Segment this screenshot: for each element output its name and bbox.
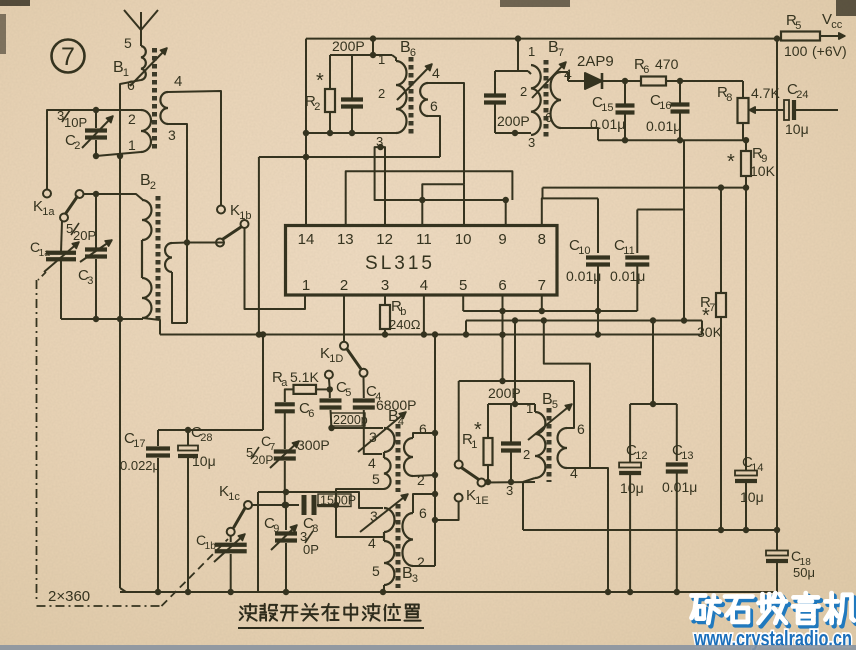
svg-text:200P: 200P [332,38,365,54]
svg-text:20P: 20P [252,453,273,467]
svg-text:1a: 1a [42,206,55,218]
svg-text:4: 4 [420,277,428,294]
wire right vertical x777 [776,39,778,530]
wire IC pin6 oscillator feed [459,295,574,384]
svg-text:0.01μ: 0.01μ [590,116,625,132]
wire B1 pin3 down to B2 [168,124,190,323]
caption band-switch position text [238,604,424,628]
svg-text:470: 470 [655,56,679,72]
capacitor C16 [646,81,690,140]
svg-text:11: 11 [416,231,432,248]
wire C5 to B4 pin3 [328,410,383,431]
transformer B6 tank bottom wire [306,130,396,136]
svg-text:240Ω: 240Ω [389,317,421,332]
svg-text:7: 7 [270,442,276,453]
terminal K1a fixed contact [43,190,51,198]
capacitor C17 [120,430,170,592]
capacitor C1b variable [196,532,247,562]
transformer B5 label [542,391,558,411]
transformer B4 secondary winding [404,421,427,488]
svg-text:4: 4 [432,65,440,81]
svg-text:1: 1 [302,277,310,294]
capacitor C24 output [770,81,838,137]
wire C1a bottom to ground rail [60,260,62,319]
transformer B6 secondary winding [420,65,440,116]
svg-text:2: 2 [417,554,425,570]
wire detector node [602,78,641,84]
wire B5 pin6 to IC pin6 line [567,381,574,428]
transformer B4 tuning arrow [358,412,406,452]
op-amp IC U1 SL315 [286,226,558,296]
capacitor C13 [662,404,697,592]
transformer B6 tuning arrow [397,64,432,100]
svg-text:0.01μ: 0.01μ [610,268,645,284]
svg-text:6: 6 [498,277,506,294]
wire ground rail bottom [120,589,777,595]
svg-text:7: 7 [538,277,546,294]
transformer B7 primary winding [520,44,541,150]
svg-text:10μ: 10μ [620,480,644,496]
svg-text:16: 16 [659,100,671,112]
wire AGC line y140 [598,137,749,143]
capacitor C5 [320,379,352,408]
svg-text:0.01μ: 0.01μ [566,268,601,284]
svg-text:12: 12 [635,450,647,462]
capacitor C2 value 3/10P [57,108,87,152]
wire C12 C13 bridge [630,403,677,405]
svg-text:1b: 1b [205,541,217,552]
svg-text:50μ: 50μ [793,565,815,580]
svg-text:1D: 1D [329,353,343,365]
wire K1c pivot to C1b [230,535,232,542]
transformer B6 primary winding [376,52,407,149]
svg-text:14: 14 [298,231,315,248]
svg-text:7: 7 [61,43,75,71]
svg-text:*: * [474,419,482,441]
capacitor C10 [566,198,610,311]
resistor R6 [634,56,679,86]
wire R6 to R8 [666,78,743,84]
svg-text:10μ: 10μ [785,121,809,137]
wire B6 pin4 to IC pins 10/11 [419,83,464,226]
transformer B2 primary winding [142,200,152,318]
figure number 7 circle [52,40,85,73]
wire C3 bottom to ground rail [93,259,99,322]
svg-text:12: 12 [376,231,393,248]
svg-text:6: 6 [430,98,438,114]
wire C11 top to AGC net [637,209,684,211]
wire AGC bypass vertical x684 [683,140,685,320]
wire C10 down to supply rail [595,308,601,338]
wire B3 pin2 to osc bus [413,565,435,567]
transformer B1 secondary winding (pins 2-1) [128,110,151,153]
wire K1d moving contact to C4 [363,377,365,398]
svg-text:2: 2 [417,472,425,488]
svg-text:a: a [281,377,288,389]
wire B4 pin6 to osc bus [413,430,438,438]
wire K1e rest terminal to osc bus [435,502,459,520]
wire B1 pin6 to pin1 junction [117,80,141,159]
wire K1b pivot to IC pin1 [245,228,306,309]
svg-text:1: 1 [378,52,385,67]
svg-text:6: 6 [419,421,427,437]
gang dash-dot line left [37,272,229,606]
wire Ra left to C6 [285,389,294,402]
switch K1c [219,483,252,536]
svg-text:1E: 1E [475,495,488,507]
svg-text:1c: 1c [228,491,240,503]
svg-text:24: 24 [796,89,808,101]
wire B1 pin4 to K1b terminal [168,91,221,205]
svg-text:2: 2 [314,101,320,113]
svg-text:5.1K: 5.1K [290,369,319,385]
resistor Ra [272,369,319,394]
svg-text:5: 5 [459,277,467,294]
svg-text:2: 2 [74,140,80,152]
svg-text:*: * [316,70,324,92]
svg-text:2: 2 [523,447,530,462]
transformer B1 tuning arrow [130,48,167,86]
capacitor C1a variable [44,242,79,272]
svg-text:3: 3 [381,277,389,294]
capacitor C7 trimmer [246,433,330,468]
svg-text:10: 10 [578,245,590,257]
wire 1500P line [252,489,299,508]
svg-text:3: 3 [412,573,418,585]
transformer B5 core [547,408,552,482]
transformer B3 primary winding [368,508,395,585]
svg-text:200P: 200P [488,385,521,401]
svg-text:13: 13 [681,450,693,462]
transformer B7 label [548,39,564,59]
svg-text:2200p: 2200p [333,413,368,427]
wire K1a pivot to C3 and B2 top [83,191,143,248]
transformer B2 coupling winding [165,243,172,272]
resistor R5 supply [781,12,847,59]
wire IF ground return y157 [256,154,440,338]
capacitor C3 trimmer [80,240,112,262]
svg-text:6: 6 [577,421,585,437]
capacitor C2 trimmer [82,116,113,148]
label 2x360 [48,588,90,605]
wire B1 pin2 to C2 top and K1a [47,107,141,189]
transformer B4 primary winding [368,428,395,489]
svg-text:1: 1 [526,401,533,416]
svg-text:6: 6 [545,110,552,125]
wire B5 pin4 to ground [567,468,608,592]
svg-text:10μ: 10μ [740,489,764,505]
transformer B6 tank top wire [330,54,392,56]
svg-text:6: 6 [308,408,314,420]
capacitor C28 [178,424,216,595]
wire left tank bottom rail [61,316,143,322]
transformer B3 label [402,565,418,585]
wire B1 pin1 to C2 bottom [93,110,141,159]
wire band line y492 [258,492,383,508]
svg-text:(+6V): (+6V) [812,43,847,59]
transformer B3 core [396,504,401,588]
capacitor C6 [275,400,315,420]
svg-text:1a: 1a [39,248,51,259]
svg-text:5: 5 [372,563,380,579]
wire decoupling top wire y430 [158,331,266,433]
wire osc bus vertical x435 [432,335,438,567]
wire oscillator supply loop y320 [466,317,702,334]
svg-text:0P: 0P [303,542,319,557]
resistor R2 [305,55,335,133]
capacitor C15 [590,81,635,140]
svg-text:0.01μ: 0.01μ [662,479,697,495]
transformer B5 primary winding [506,401,545,498]
transformer B6 label [400,39,416,59]
wire AGC line y187 [543,184,750,198]
wire C6 to C7 [284,413,286,449]
svg-text:17: 17 [133,438,145,450]
wire B2 coupling bottom [172,272,187,323]
svg-text:10: 10 [455,231,472,248]
wire band line left down [257,492,259,592]
wire Ra right to K1d contact and C5 [316,379,333,398]
svg-text:2: 2 [520,84,527,99]
wire rail corner to IC pin14 [303,39,309,226]
transformer B5 secondary winding [558,421,586,481]
svg-text:1: 1 [128,137,136,153]
capacitor 200P in B7 tank [484,71,530,133]
svg-text:3: 3 [528,135,535,150]
wire supply rail y334 [160,331,702,338]
wire IC pin2 to K1d [343,295,345,342]
capacitor C3 labels [66,221,96,287]
wire B2 coupling top to K1b contact [172,242,187,245]
transformer B1 core [152,48,157,152]
transformer B7 core [544,60,549,138]
capacitor C9 trimmer [264,505,297,592]
wire C4 to B4 tap [364,410,382,454]
svg-text:2: 2 [378,86,385,101]
label Vcc [820,11,845,39]
svg-text:2AP9: 2AP9 [577,53,614,70]
switch K1d [320,342,368,379]
transformer B4 core [396,424,401,492]
svg-text:*: * [727,151,735,173]
svg-text:1500P: 1500P [320,494,356,508]
switch K1b [216,202,252,247]
svg-text:15: 15 [601,102,613,114]
svg-text:2×360: 2×360 [48,588,90,605]
wire B2 bottom to supply rail [143,318,160,335]
wire osc tank bottom to output rail [522,482,524,530]
potentiometer R8 volume [717,81,780,140]
wire long vertical from B1 pin6 to ground [120,156,126,592]
svg-text:8: 8 [726,92,732,104]
svg-text:10K: 10K [750,163,776,179]
wire K1b moving contact to B2 top winding [187,242,224,244]
wire IC pin4 to supply rail [423,295,425,335]
svg-text:30K: 30K [697,324,723,340]
resistor Rb [380,295,421,335]
svg-text:4: 4 [368,455,376,471]
wire IC pin8 to C10 box [542,198,598,225]
transformer B6 core [409,57,414,137]
svg-text:7: 7 [709,302,715,314]
wire C7 to 1500P line [282,461,288,508]
wire IC pin5/6/7 line [463,295,637,314]
transformer B7 tank bottom wire [495,130,531,136]
wire B6 feed from rail [370,39,376,59]
wire osc tank top [488,321,535,408]
wire IC pin13 to oscillator line [346,171,513,225]
capacitor C8 value 3/10P [300,529,319,557]
transformer B4 label [388,408,404,428]
wire osc tank bottom [485,479,535,485]
capacitor 200P in osc tank [488,385,521,482]
svg-text:7: 7 [558,47,564,59]
watermark logo [692,593,856,626]
capacitor C4 [353,383,417,413]
diode 2AP9 [561,53,614,89]
svg-text:3: 3 [506,483,513,498]
transformer B7 tuning arrow [532,62,566,98]
wire B4 pin2 to osc bus [413,472,438,478]
transformer B1 coupling winding (pins 4-3) [160,73,182,143]
capacitor C14 [735,188,764,530]
switch K1e [455,461,489,508]
svg-text:4: 4 [174,73,182,90]
wire B3 pin5 to ground [383,585,385,592]
transformer B3 secondary winding [402,505,427,570]
capacitor C12 [619,404,647,592]
wire C1b to ground [230,554,232,592]
svg-text:9: 9 [498,231,506,248]
resistor R1 [462,404,493,482]
svg-text:8: 8 [312,523,318,535]
svg-text:4: 4 [368,535,376,551]
capacitor C1a label [30,239,50,259]
svg-text:20P: 20P [73,228,96,243]
svg-text:3: 3 [168,127,176,143]
transformer B5 tuning arrow [528,404,572,440]
svg-text:11: 11 [623,245,634,257]
wire Vcc top rail [306,35,781,41]
wire B4 pin5 down [333,489,384,537]
svg-text:cc: cc [831,19,843,31]
capacitor 200P in B6 tank [332,38,365,133]
svg-text:10μ: 10μ [192,453,216,469]
resistor R7 [697,188,726,530]
svg-text:5: 5 [345,387,351,399]
svg-text:6: 6 [419,505,427,521]
terminal K1b fixed contact [217,206,225,214]
wire R8 wiper arrow [749,107,772,113]
svg-text:0.022μ: 0.022μ [120,458,160,473]
svg-text:200P: 200P [497,113,530,129]
svg-text:9: 9 [273,523,279,535]
transformer B2 label [140,172,156,192]
svg-text:1: 1 [528,44,535,59]
wire K1a arm to C1a top [61,221,62,252]
transformer B1 label [113,59,129,79]
svg-text:100: 100 [784,43,808,59]
wire B6 pin6 down to pin14 net [428,116,440,157]
wire B7 feed from rail [517,39,519,71]
label 2200p boxed [331,413,368,427]
svg-text:10P: 10P [64,115,87,130]
watermark url [693,626,852,650]
svg-text:8: 8 [538,231,546,248]
svg-text:2: 2 [128,111,136,127]
svg-text:3: 3 [87,275,93,287]
transformer B7 secondary winding [545,66,572,128]
wire output rail y530 [523,527,780,533]
antenna [124,10,158,46]
transformer B7 tank top wire [495,70,528,72]
svg-text:5: 5 [372,471,380,487]
wire IC pin12 loop [375,144,509,226]
svg-text:13: 13 [337,231,354,248]
svg-text:5: 5 [795,20,801,32]
svg-text:5: 5 [124,35,132,51]
wire C12/C13 riser [650,321,656,408]
svg-text:28: 28 [200,432,212,444]
switch K1a [33,190,84,222]
capacitor C18 [766,530,815,592]
svg-text:0.01μ: 0.01μ [646,118,681,134]
svg-text:14: 14 [751,462,763,474]
wire B7 pin6 to AGC line [561,128,598,140]
transformer B2 core [156,196,161,322]
resistor R9 [727,140,776,187]
wire B3 pin6 to osc bus [413,491,438,513]
capacitor C8 1500P [303,494,356,536]
wire K1e pivot feed [458,381,460,461]
svg-text:5: 5 [552,399,558,411]
svg-text:2: 2 [150,180,156,192]
transformer B3 tuning arrow [360,494,408,532]
svg-text:2: 2 [340,277,348,294]
wire B5 frame decor [544,321,590,469]
transformer B1 primary winding (pins 5-6, adjustable) [124,35,146,93]
svg-text:300P: 300P [297,437,330,453]
svg-text:6: 6 [643,64,649,76]
capacitor C11 [610,210,649,312]
svg-text:SL315: SL315 [365,253,435,274]
